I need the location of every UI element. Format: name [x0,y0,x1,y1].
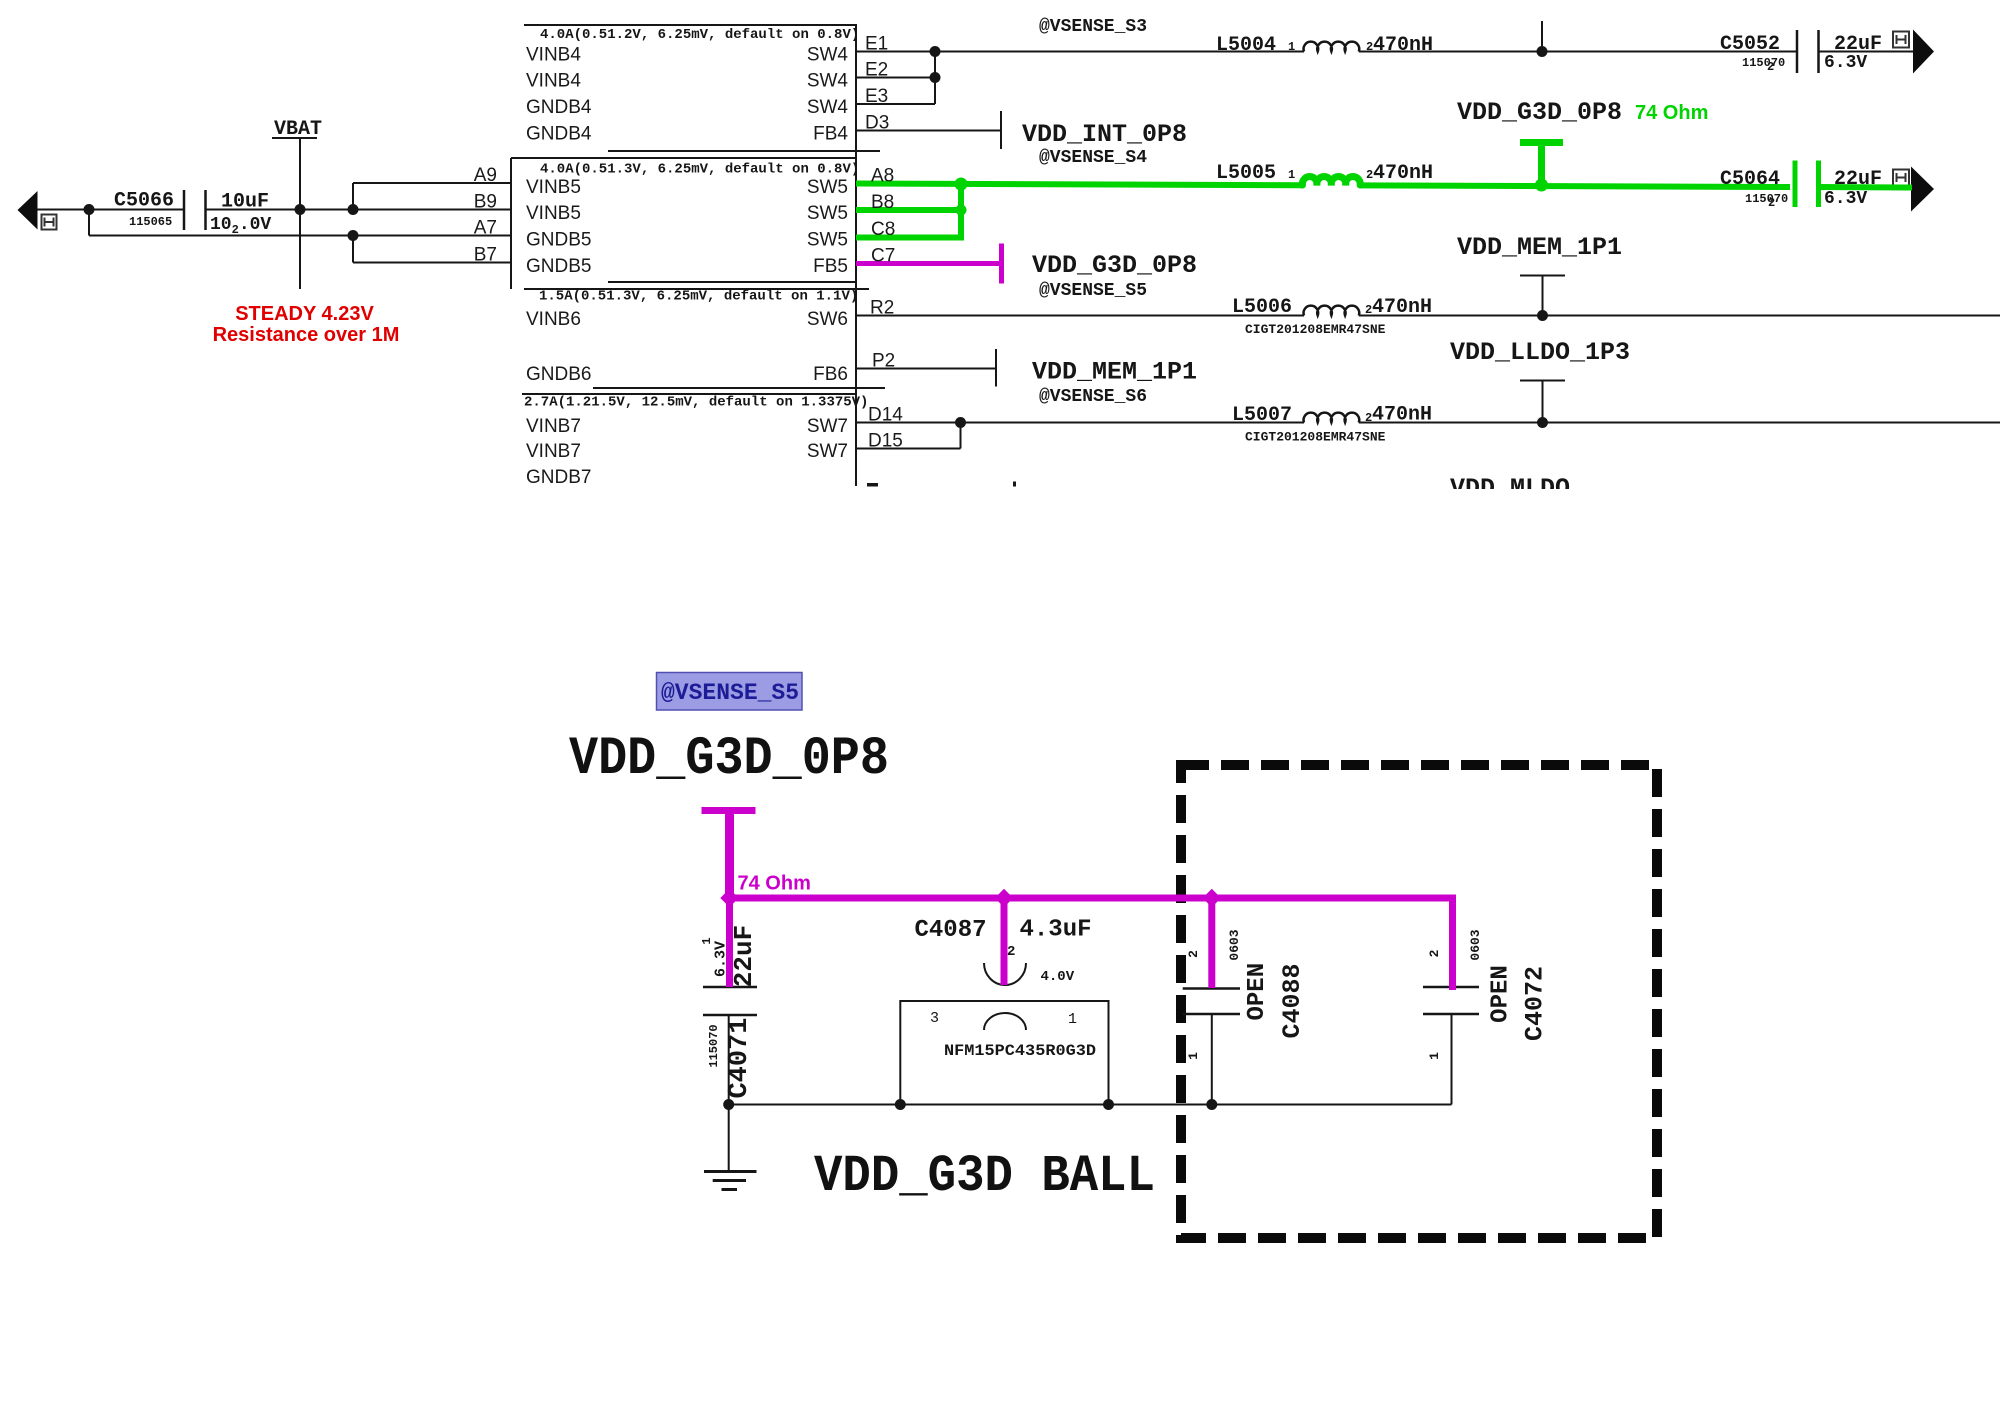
svg-text:VDD_LLDO_1P3: VDD_LLDO_1P3 [1450,338,1630,367]
svg-text:4.0V: 4.0V [1041,969,1075,985]
svg-text:2: 2 [1427,949,1442,957]
svg-text:GNDB4: GNDB4 [526,97,592,118]
svg-text:L5006: L5006 [1232,296,1292,319]
svg-text:VINB6: VINB6 [526,309,581,330]
svg-text:OPEN: OPEN [1488,965,1515,1023]
svg-text:STEADY 4.23V: STEADY 4.23V [235,303,374,325]
svg-text:E1: E1 [865,34,888,55]
svg-text:GNDB7: GNDB7 [526,467,591,488]
svg-text:6.3V: 6.3V [1824,53,1867,73]
svg-text:B9: B9 [474,192,497,213]
svg-text:FB5: FB5 [813,256,848,277]
svg-text:C5052: C5052 [1720,33,1780,56]
svg-text:R2: R2 [870,298,894,319]
svg-text:VDD_G3D_0P8: VDD_G3D_0P8 [1032,251,1197,280]
svg-text:0603: 0603 [1468,929,1483,960]
svg-text:C4072: C4072 [1521,966,1550,1041]
svg-text:FB4: FB4 [813,124,848,145]
svg-text:NFM15PC435R0G3D: NFM15PC435R0G3D [944,1042,1096,1060]
svg-text:A8: A8 [871,166,894,187]
svg-text:B7: B7 [474,245,497,266]
svg-text:VINB7: VINB7 [526,441,581,462]
svg-text:OPEN: OPEN [1244,963,1271,1021]
svg-text:C7: C7 [871,246,895,267]
svg-text:74 Ohm: 74 Ohm [738,873,811,895]
svg-text:C5066: C5066 [114,190,174,213]
svg-text:VBAT: VBAT [274,118,322,141]
svg-text:2: 2 [1768,196,1775,210]
svg-text:4.3uF: 4.3uF [1020,917,1092,944]
svg-text:D3: D3 [865,113,889,134]
svg-text:E3: E3 [865,86,888,107]
svg-text:CIGT201208EMR47SNE: CIGT201208EMR47SNE [1245,430,1386,445]
svg-text:@VSENSE_S5: @VSENSE_S5 [1039,281,1147,301]
svg-text:D14: D14 [868,405,903,426]
svg-text:115070: 115070 [1745,192,1788,206]
svg-text:1: 1 [700,937,714,944]
svg-text:Resistance over 1M: Resistance over 1M [213,324,400,346]
svg-text:SW4: SW4 [807,71,849,92]
svg-text:VINB5: VINB5 [526,177,581,198]
svg-text:VINB4: VINB4 [526,45,581,66]
svg-text:C8: C8 [871,219,895,240]
svg-text:FB6: FB6 [813,364,848,385]
svg-text:A9: A9 [474,165,497,186]
svg-text:VDD_MEM_1P1: VDD_MEM_1P1 [1032,358,1197,387]
svg-text:VDD_INT_0P8: VDD_INT_0P8 [1022,120,1187,149]
svg-text:SW4: SW4 [807,97,849,118]
svg-text:GNDB6: GNDB6 [526,364,591,385]
svg-text:D15: D15 [868,431,903,452]
svg-text:C4087: C4087 [915,917,987,944]
svg-text:SW5: SW5 [807,230,848,251]
svg-text:6.3V: 6.3V [1824,189,1867,209]
svg-text:SW4: SW4 [807,45,849,66]
svg-text:4.0A(0.51.2V, 6.25mV, default: 4.0A(0.51.2V, 6.25mV, default on 0.8V) [540,27,859,43]
svg-text:VDD_G3D BALL: VDD_G3D BALL [814,1147,1155,1206]
svg-text:0603: 0603 [1227,929,1242,960]
svg-text:4.0A(0.51.3V, 6.25mV, default: 4.0A(0.51.3V, 6.25mV, default on 0.8V) [540,162,859,178]
svg-text:74 Ohm: 74 Ohm [1635,102,1708,124]
svg-text:GNDB5: GNDB5 [526,230,591,251]
svg-text:C4071: C4071 [725,1017,755,1098]
svg-text:B8: B8 [871,192,894,213]
svg-text:VINB7: VINB7 [526,416,581,437]
svg-text:P2: P2 [872,351,895,372]
svg-text:470nH: 470nH [1372,296,1432,319]
svg-text:1: 1 [1068,1011,1077,1028]
svg-text:22uF: 22uF [1834,168,1882,191]
svg-text:@VSENSE_S6: @VSENSE_S6 [1039,387,1147,407]
svg-text:VDD_G3D_0P8: VDD_G3D_0P8 [1457,98,1622,127]
svg-text:10uF: 10uF [221,191,269,214]
svg-text:A7: A7 [474,218,497,239]
svg-text:1: 1 [1186,1052,1201,1060]
svg-text:VDD_G3D_0P8: VDD_G3D_0P8 [569,729,889,790]
svg-text:L5005: L5005 [1216,162,1276,185]
svg-text:102.0V: 102.0V [210,215,271,237]
svg-text:470nH: 470nH [1372,404,1432,427]
svg-text:6.3V: 6.3V [713,941,730,977]
svg-text:VINB5: VINB5 [526,203,581,224]
svg-text:470nH: 470nH [1373,162,1433,185]
svg-text:3: 3 [930,1010,939,1027]
svg-text:VDD_MEM_1P1: VDD_MEM_1P1 [1457,233,1622,262]
svg-text:SW5: SW5 [807,203,848,224]
svg-text:VINB4: VINB4 [526,71,581,92]
svg-text:1: 1 [1427,1052,1442,1060]
svg-text:@VSENSE_S4: @VSENSE_S4 [1039,148,1147,168]
svg-text:E2: E2 [865,60,888,81]
svg-text:115065: 115065 [129,215,172,229]
svg-text:C4088: C4088 [1278,963,1307,1038]
svg-text:@VSENSE_S3: @VSENSE_S3 [1039,17,1147,37]
svg-text:470nH: 470nH [1373,34,1433,57]
svg-text:2: 2 [1767,60,1774,74]
svg-text:GNDB5: GNDB5 [526,256,591,277]
svg-text:115070: 115070 [707,1024,721,1067]
svg-text:C5064: C5064 [1720,168,1780,191]
svg-text:CIGT201208EMR47SNE: CIGT201208EMR47SNE [1245,322,1386,337]
svg-text:22uF: 22uF [729,925,759,987]
svg-text:GNDB4: GNDB4 [526,124,592,145]
svg-text:SW7: SW7 [807,441,848,462]
svg-text:2.7A(1.21.5V, 12.5mV, default: 2.7A(1.21.5V, 12.5mV, default on 1.3375V… [524,395,868,411]
svg-text:1: 1 [1288,168,1295,182]
svg-text:@VSENSE_S5: @VSENSE_S5 [661,680,799,706]
svg-text:2: 2 [1186,950,1201,958]
svg-text:L5004: L5004 [1216,34,1276,57]
svg-text:SW6: SW6 [807,309,848,330]
svg-text:1.5A(0.51.3V, 6.25mV, default: 1.5A(0.51.3V, 6.25mV, default on 1.1V) [539,289,858,305]
svg-text:115070: 115070 [1742,56,1785,70]
svg-text:SW7: SW7 [807,416,848,437]
svg-text:L5007: L5007 [1232,404,1292,427]
svg-text:SW5: SW5 [807,177,848,198]
svg-text:VDD_MLDO: VDD_MLDO [1450,474,1570,503]
svg-text:2: 2 [1007,944,1015,960]
svg-text:1: 1 [1288,40,1295,54]
